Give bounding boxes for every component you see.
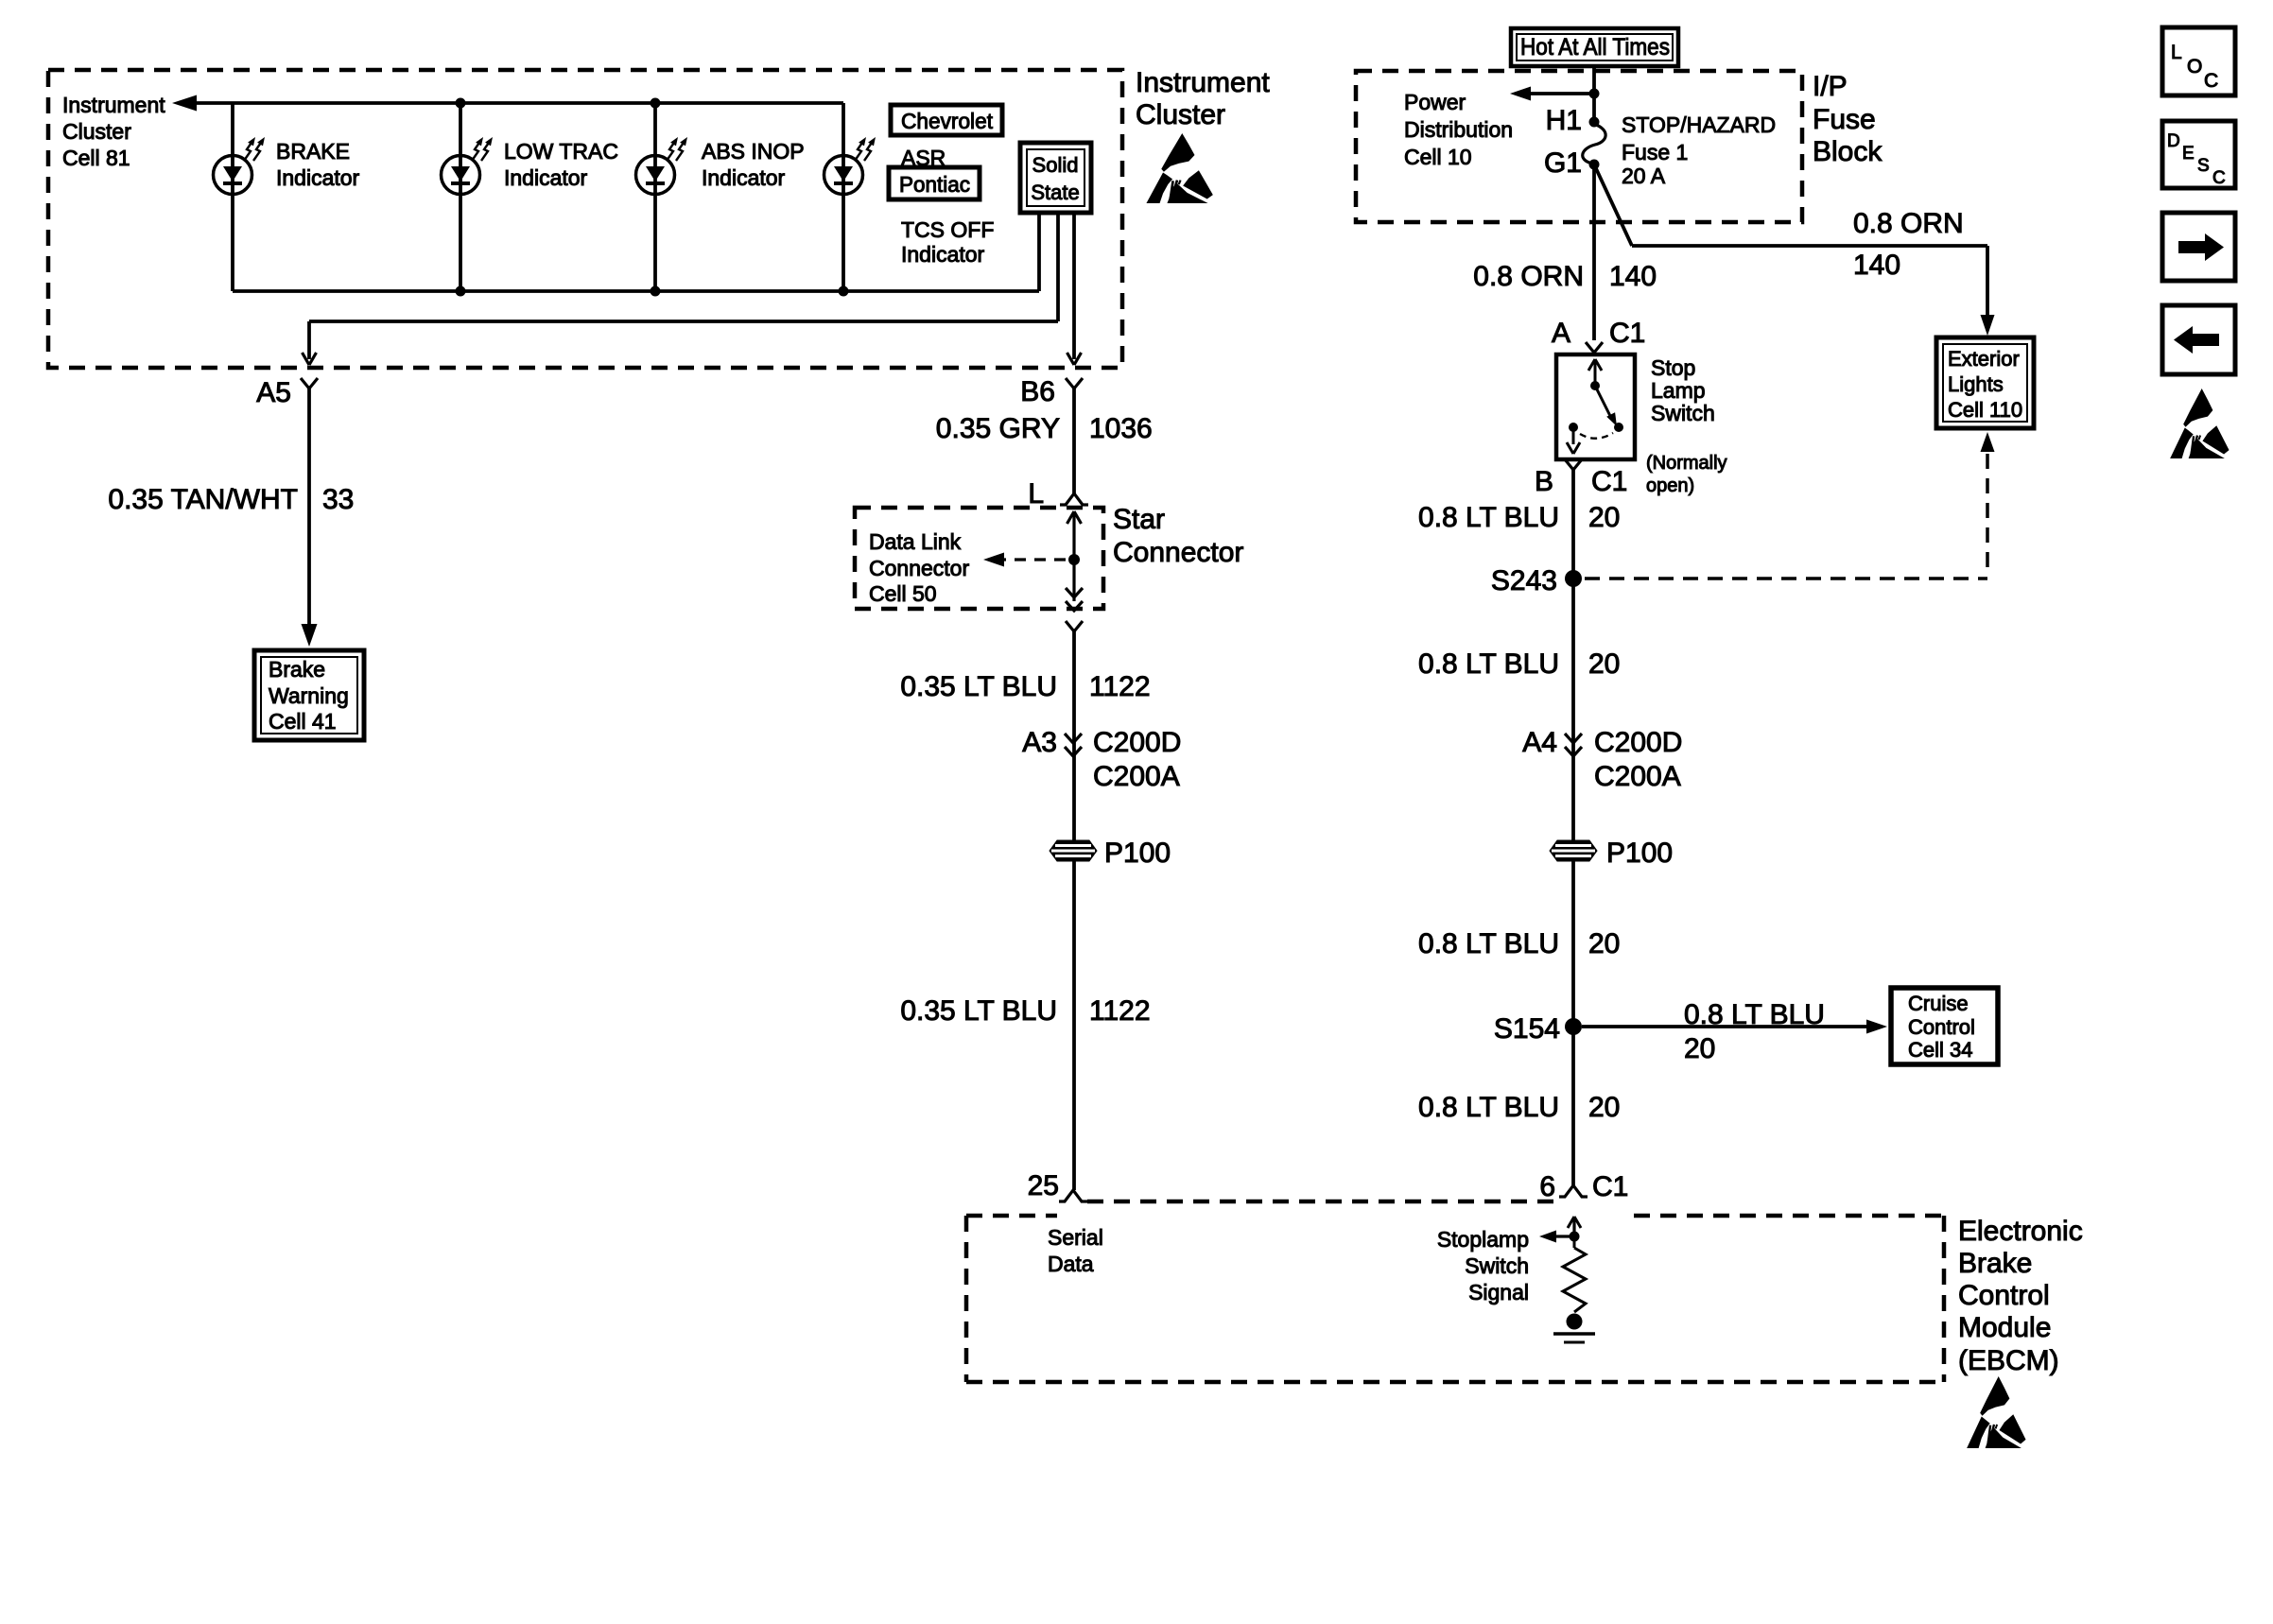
svg-text:Instrument: Instrument (1136, 67, 1270, 98)
svg-text:Lamp: Lamp (1651, 378, 1706, 403)
svg-text:0.8 LT BLU: 0.8 LT BLU (1684, 999, 1825, 1030)
icon arrow right box (2162, 213, 2235, 281)
svg-text:20: 20 (1588, 928, 1620, 959)
svg-text:Cruise: Cruise (1908, 992, 1969, 1015)
wire solid state pin to B6 (1072, 213, 1076, 359)
svg-text:C200A: C200A (1594, 761, 1681, 792)
wire dashed to data link connector with arrow (995, 558, 1067, 561)
svg-text:TCS OFF: TCS OFF (901, 217, 994, 242)
node junction dots top bus (456, 98, 466, 109)
fuse STOP/HAZARD Fuse 1 20A (1589, 117, 1600, 128)
connector P100 left (1050, 840, 1097, 861)
wire arrow to Power Distribution (1521, 92, 1594, 95)
svg-text:0.35 TAN/WHT: 0.35 TAN/WHT (108, 484, 298, 515)
svg-text:A: A (1552, 318, 1570, 349)
svg-text:A3: A3 (1022, 727, 1057, 758)
switch internals (1594, 360, 1597, 386)
svg-text:Control: Control (1908, 1015, 1975, 1039)
svg-text:B6: B6 (1020, 376, 1055, 407)
svg-text:Signal: Signal (1468, 1280, 1529, 1304)
svg-text:Cell 50: Cell 50 (869, 581, 937, 606)
svg-text:A5: A5 (256, 377, 291, 408)
wire 0.35 GRY 1036 (1072, 389, 1076, 493)
svg-text:0.8 LT BLU: 0.8 LT BLU (1418, 1092, 1559, 1123)
splice S243 (1565, 570, 1582, 587)
svg-text:Stop: Stop (1651, 355, 1695, 380)
svg-text:Instrument: Instrument (62, 93, 165, 117)
svg-text:STOP/HAZARD: STOP/HAZARD (1622, 112, 1776, 137)
svg-text:LOW TRAC: LOW TRAC (504, 139, 618, 164)
wire LED3 (653, 103, 657, 291)
box Cruise Control Cell 34 (1891, 988, 1998, 1064)
wire 0.35 LT BLU 1122 upper (1072, 631, 1076, 1190)
ESD symbol right margin (2170, 389, 2229, 458)
svg-text:Data: Data (1048, 1252, 1094, 1276)
svg-text:ABS INOP: ABS INOP (702, 139, 805, 164)
resistor internal (1573, 1236, 1576, 1248)
svg-text:S154: S154 (1494, 1013, 1560, 1045)
splice S154 (1565, 1018, 1582, 1035)
svg-text:Lights: Lights (1948, 372, 2004, 396)
EBCM dashed box (966, 1214, 1057, 1218)
wire arrow to Stoplamp text (1549, 1235, 1574, 1237)
svg-text:(EBCM): (EBCM) (1958, 1345, 2059, 1376)
svg-text:G1: G1 (1544, 147, 1582, 179)
svg-text:1122: 1122 (1089, 671, 1151, 702)
svg-text:P100: P100 (1104, 838, 1171, 869)
svg-text:S243: S243 (1491, 565, 1557, 596)
LED ABS INOP Indicator (636, 156, 675, 195)
svg-text:(Normally: (Normally (1646, 453, 1727, 474)
box Hot At All Times (1511, 28, 1678, 66)
arrow into Brake Warning (302, 624, 318, 647)
svg-text:Control: Control (1958, 1280, 2050, 1311)
ground (1567, 1314, 1583, 1330)
svg-text:D: D (2167, 131, 2180, 151)
svg-text:33: 33 (322, 484, 354, 515)
svg-text:C200D: C200D (1594, 727, 1682, 758)
svg-text:C: C (2204, 70, 2218, 92)
svg-text:Hot At All Times: Hot At All Times (1520, 34, 1670, 60)
svg-text:6: 6 (1539, 1171, 1555, 1202)
box Pontiac (889, 167, 980, 199)
svg-text:0.35 GRY: 0.35 GRY (936, 413, 1060, 444)
ESD symbol instrument cluster (1146, 133, 1212, 203)
svg-text:Connector: Connector (869, 556, 969, 580)
svg-text:Indicator: Indicator (276, 165, 360, 190)
svg-text:Electronic: Electronic (1958, 1216, 2083, 1247)
node junction dots bottom bus (456, 286, 466, 297)
svg-text:20 A: 20 A (1622, 164, 1666, 188)
icon LOC box (2162, 27, 2235, 95)
wire from Hot At All Times (1592, 66, 1596, 122)
svg-text:Indicator: Indicator (702, 165, 786, 190)
wire solid state pin to bottom bus (1037, 213, 1041, 291)
box Chevrolet (891, 105, 1002, 135)
svg-text:0.8 ORN: 0.8 ORN (1473, 261, 1584, 292)
ESD symbol EBCM (1967, 1376, 2025, 1448)
svg-text:open): open) (1646, 475, 1694, 496)
node junction in star connector (1068, 554, 1080, 565)
box Exterior Lights Cell 110 (1936, 337, 2034, 428)
svg-text:C200A: C200A (1093, 761, 1180, 792)
svg-text:O: O (2187, 56, 2202, 78)
svg-text:0.8 LT BLU: 0.8 LT BLU (1418, 502, 1559, 533)
svg-text:BRAKE: BRAKE (276, 139, 350, 164)
wire 0.8 LT BLU 20 to S243 (1571, 470, 1575, 1185)
svg-text:Cell 10: Cell 10 (1404, 145, 1472, 169)
dashed connector link pin25 to pin6 (1087, 1200, 1558, 1204)
star connector output female connector (1066, 621, 1083, 631)
svg-text:Indicator: Indicator (504, 165, 588, 190)
svg-text:Cell 41: Cell 41 (269, 709, 337, 734)
svg-text:Fuse: Fuse (1813, 104, 1876, 135)
wire star connector internal with up arrow (1072, 511, 1075, 601)
wire down to exterior lights box (1986, 246, 1989, 316)
svg-text:B: B (1535, 466, 1553, 497)
node junction to power distribution (1589, 89, 1600, 99)
svg-text:Stoplamp: Stoplamp (1437, 1227, 1529, 1252)
svg-text:1122: 1122 (1089, 995, 1151, 1027)
icon DESC box (2162, 121, 2235, 188)
svg-text:Cell 110: Cell 110 (1948, 398, 2022, 422)
svg-text:P100: P100 (1606, 838, 1673, 869)
I/P fuse block dashed box (1356, 71, 1802, 222)
svg-text:Switch: Switch (1465, 1253, 1529, 1278)
wire S154 to cruise control (1582, 1025, 1874, 1028)
svg-text:Cluster: Cluster (1136, 99, 1225, 130)
instrument cluster dashed box (48, 70, 1122, 368)
svg-text:Connector: Connector (1113, 537, 1243, 568)
star connector bottom chevrons (1066, 588, 1083, 597)
svg-text:State: State (1031, 181, 1079, 204)
svg-text:H1: H1 (1546, 105, 1582, 136)
LED LOW TRAC Indicator (442, 156, 480, 195)
svg-text:Pontiac: Pontiac (899, 172, 970, 197)
svg-text:E: E (2182, 144, 2195, 164)
switch dashed arc (1580, 433, 1613, 439)
node junction stoplamp signal (1570, 1232, 1580, 1242)
icon arrow left box (2162, 305, 2235, 374)
svg-text:Module: Module (1958, 1312, 2051, 1343)
svg-text:140: 140 (1609, 261, 1657, 292)
wire top bus with arrow to Instrument text (192, 101, 843, 105)
svg-text:L: L (2171, 42, 2182, 63)
svg-text:Distribution: Distribution (1404, 117, 1513, 142)
EBCM stoplamp switch signal input arrow (1572, 1219, 1575, 1236)
svg-text:Exterior: Exterior (1948, 347, 2020, 371)
wire LED4 (842, 103, 845, 291)
wire solid state pin to A5 run (1056, 213, 1060, 321)
box Brake Warning Cell 41 (254, 650, 364, 740)
svg-text:Warning: Warning (269, 683, 349, 708)
LED TCS OFF Indicator (824, 156, 863, 195)
star connector dashed box (855, 508, 1103, 609)
svg-text:Star: Star (1113, 504, 1165, 535)
svg-text:0.8 ORN: 0.8 ORN (1853, 208, 1964, 239)
svg-text:Fuse 1: Fuse 1 (1622, 140, 1688, 164)
svg-text:C1: C1 (1591, 466, 1627, 497)
connector P100 right (1550, 840, 1597, 861)
svg-text:0.35 LT BLU: 0.35 LT BLU (900, 671, 1057, 702)
svg-text:Brake: Brake (269, 657, 325, 682)
svg-text:Switch: Switch (1651, 401, 1715, 425)
LED BRAKE Indicator (214, 156, 252, 195)
wire fuse to stop lamp switch, 0.8 ORN 140 (1592, 164, 1596, 340)
svg-text:Cell 34: Cell 34 (1908, 1038, 1972, 1062)
wire dashed S243 to exterior lights (1585, 577, 1987, 580)
svg-text:C200D: C200D (1093, 727, 1181, 758)
svg-text:20: 20 (1684, 1033, 1715, 1064)
switch Stop Lamp Switch box (1556, 354, 1635, 459)
svg-text:A4: A4 (1522, 727, 1557, 758)
svg-text:Cell 81: Cell 81 (62, 146, 130, 170)
svg-text:C: C (2212, 168, 2226, 188)
svg-text:0.8 LT BLU: 0.8 LT BLU (1418, 928, 1559, 959)
svg-text:I/P: I/P (1813, 71, 1848, 102)
wire A5 drop inside cluster (307, 321, 311, 359)
wire 0.35 TAN/WHT 33 (307, 389, 311, 624)
svg-text:C1: C1 (1592, 1171, 1628, 1202)
svg-text:Chevrolet: Chevrolet (901, 109, 994, 133)
svg-text:1036: 1036 (1089, 413, 1153, 444)
svg-text:20: 20 (1588, 648, 1620, 680)
svg-text:Indicator: Indicator (901, 242, 985, 267)
box Solid State (1020, 143, 1091, 213)
svg-text:25: 25 (1028, 1170, 1059, 1201)
svg-text:140: 140 (1853, 250, 1900, 281)
svg-text:Serial: Serial (1048, 1225, 1103, 1250)
svg-text:Data Link: Data Link (869, 529, 962, 554)
svg-text:20: 20 (1588, 1092, 1620, 1123)
svg-text:Solid: Solid (1032, 153, 1079, 177)
svg-text:Block: Block (1813, 136, 1883, 167)
wire bottom bus (231, 103, 234, 291)
svg-text:20: 20 (1588, 502, 1620, 533)
svg-text:Cluster: Cluster (62, 119, 131, 144)
svg-text:C1: C1 (1609, 318, 1645, 349)
wire LED2 (459, 103, 462, 291)
svg-text:0.35 LT BLU: 0.35 LT BLU (900, 995, 1057, 1027)
svg-text:Power: Power (1404, 90, 1466, 114)
svg-text:0.8 LT BLU: 0.8 LT BLU (1418, 648, 1559, 680)
svg-text:L: L (1028, 478, 1044, 510)
svg-text:Brake: Brake (1958, 1248, 2032, 1279)
wire diagonal from fuse to exterior lights feed (1594, 164, 1632, 246)
svg-text:S: S (2197, 156, 2210, 176)
